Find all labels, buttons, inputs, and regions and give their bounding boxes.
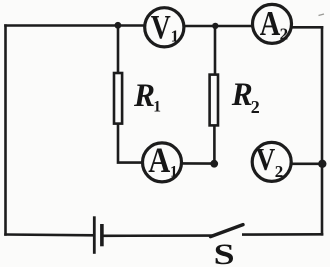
wire top middle segment bbox=[185, 25, 251, 28]
svg-text:1: 1 bbox=[171, 26, 179, 45]
voltmeter V2 bbox=[252, 142, 291, 181]
wire bottom-right segment bbox=[243, 233, 322, 236]
resistor R1 bbox=[114, 73, 122, 124]
svg-text:R: R bbox=[133, 78, 155, 114]
battery B1 long plate bbox=[93, 216, 96, 254]
node A (top wire / R1 branch junction) bbox=[115, 22, 122, 29]
wire R1 branch top bbox=[117, 26, 120, 72]
svg-text:A: A bbox=[148, 140, 170, 180]
svg-text:V: V bbox=[256, 142, 276, 177]
svg-text:2: 2 bbox=[251, 97, 260, 117]
svg-text:1: 1 bbox=[153, 98, 161, 115]
wire top-left segment bbox=[6, 24, 144, 27]
wire bottom-left segment bbox=[6, 233, 95, 236]
svg-text:V: V bbox=[151, 9, 171, 46]
voltmeter V1 bbox=[145, 8, 184, 47]
node B (top wire / R2 branch junction) bbox=[212, 23, 218, 29]
switch S lever bbox=[211, 225, 244, 237]
ammeter A2 bbox=[253, 4, 292, 44]
wire right side bbox=[321, 27, 324, 234]
svg-text:A: A bbox=[260, 4, 281, 43]
svg-text:1: 1 bbox=[170, 164, 178, 181]
wire R2 branch top bbox=[214, 26, 217, 73]
wire top-right segment bbox=[293, 26, 322, 29]
wire R1 branch bottom bbox=[118, 125, 141, 163]
svg-text:R: R bbox=[231, 77, 253, 113]
wire bottom middle segment bbox=[104, 234, 212, 237]
ammeter A1 bbox=[143, 140, 182, 182]
svg-text:2: 2 bbox=[280, 25, 289, 44]
resistor R2 bbox=[210, 75, 218, 126]
wire left side bbox=[4, 26, 7, 235]
scan artifact top-right bbox=[319, 14, 325, 16]
svg-text:S: S bbox=[214, 238, 235, 267]
battery B1 short plate bbox=[100, 224, 104, 246]
svg-text:2: 2 bbox=[275, 162, 284, 181]
wire V2 to right side bbox=[293, 163, 322, 166]
wire R2 branch bottom bbox=[213, 127, 216, 164]
wire A1 to node B bbox=[183, 162, 214, 165]
node D (middle wire / right side junction) bbox=[318, 160, 326, 168]
node C (middle wire / R2 bottom junction) bbox=[210, 160, 218, 168]
